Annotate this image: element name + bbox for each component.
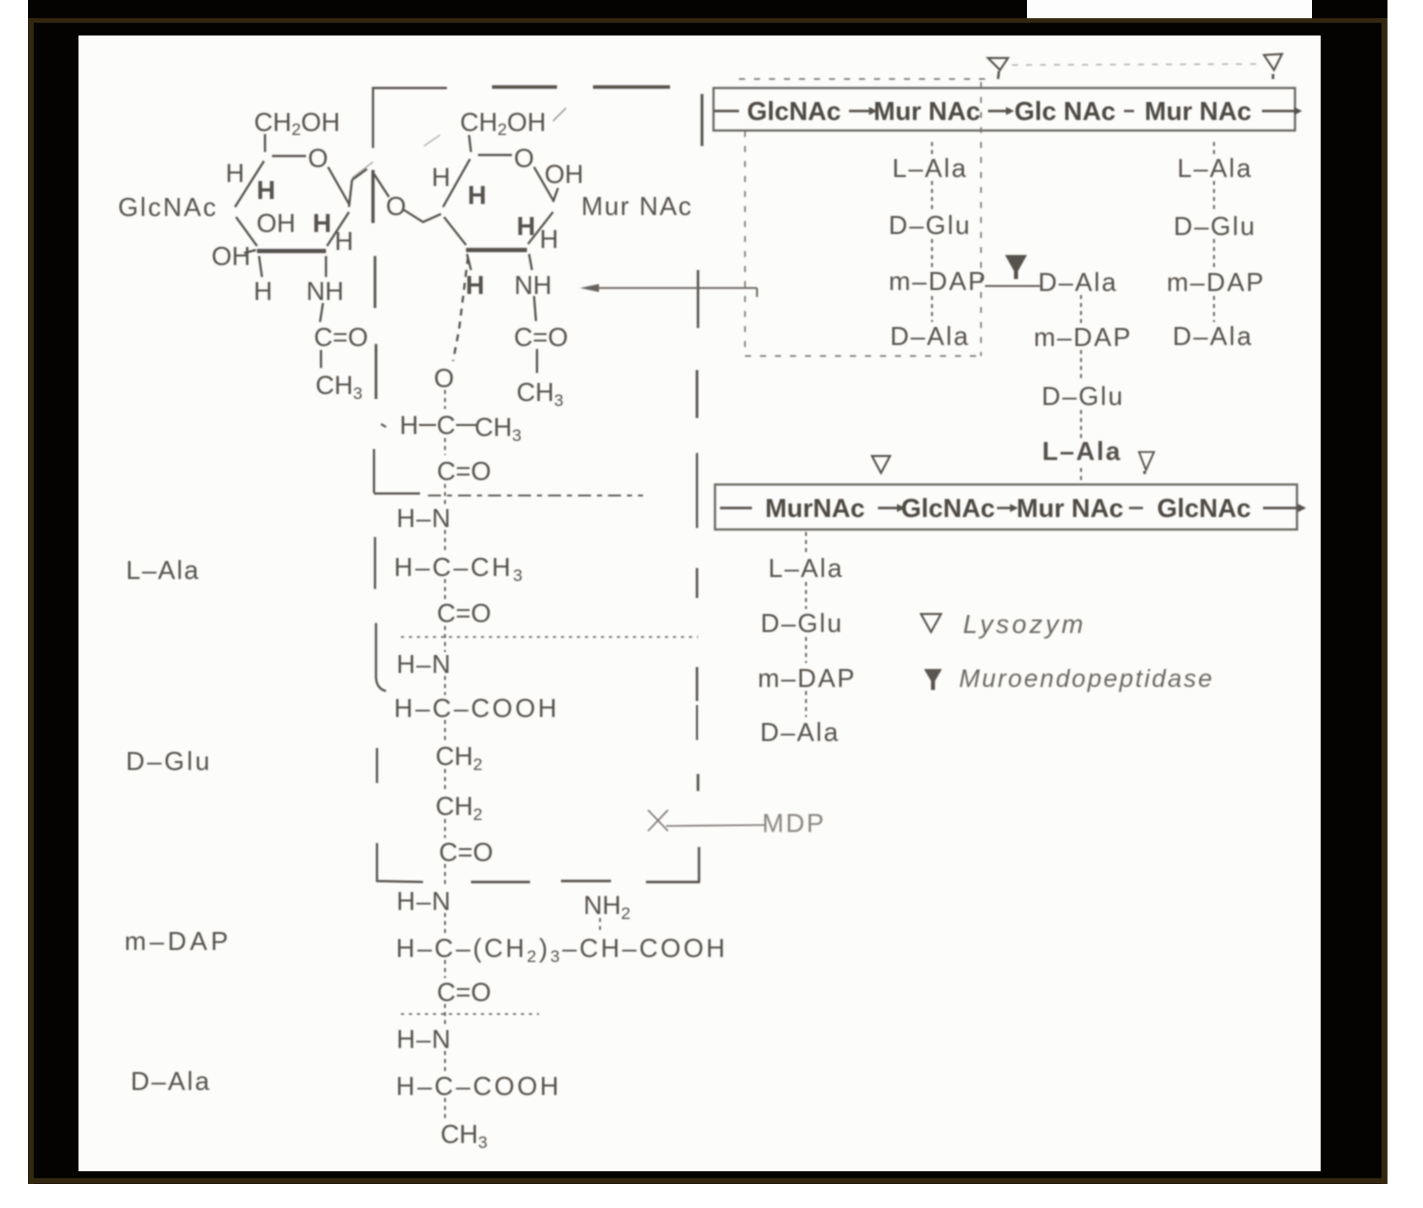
svg-text:H–N: H–N [396, 886, 451, 916]
left bracket segment [376, 748, 378, 783]
left bracket segment with hook [376, 623, 386, 691]
svg-text:C=O: C=O [439, 837, 493, 867]
svg-text:H–C–COOH: H–C–COOH [396, 1071, 561, 1101]
glycan box 1 [714, 88, 1296, 131]
peptide chain under box1 col2 [1167, 153, 1266, 351]
box 1 text [747, 96, 1251, 126]
svg-text:O: O [514, 143, 534, 173]
svg-text:D–Glu: D–Glu [1174, 211, 1257, 241]
crosslink chain [1034, 267, 1133, 466]
svg-text:C=O: C=O [437, 977, 491, 1007]
svg-text:m–DAP: m–DAP [1034, 322, 1133, 352]
svg-text:H–C–CH3: H–C–CH3 [394, 552, 525, 585]
svg-text:m–DAP: m–DAP [758, 663, 857, 693]
svg-text:D–Glu: D–Glu [1042, 381, 1125, 411]
svg-text:H: H [257, 175, 276, 205]
svg-text:H: H [335, 226, 354, 256]
svg-text:GlcNAc: GlcNAc [118, 192, 218, 222]
MurNAc ring bonds to substituents [467, 188, 558, 373]
legend open triangle [921, 614, 941, 632]
svg-text:D–Ala: D–Ala [1173, 321, 1254, 351]
svg-text:H: H [540, 224, 559, 254]
svg-text:NH: NH [306, 276, 344, 306]
svg-text:Mur NAc: Mur NAc [1017, 493, 1124, 523]
svg-text:GlcNAc: GlcNAc [1157, 493, 1251, 523]
svg-text:Mur NAc: Mur NAc [874, 96, 981, 126]
svg-text:OH: OH [257, 208, 296, 238]
GlcNAc ring bonds to substituents [244, 250, 326, 368]
svg-text:H–C–COOH: H–C–COOH [394, 693, 559, 723]
box 2 text [765, 493, 1251, 523]
svg-text:GlcNAc: GlcNAc [901, 493, 995, 523]
svg-text:H: H [226, 158, 245, 188]
left bracket bottom corner [377, 843, 423, 882]
open triangle above box2 [872, 456, 890, 473]
svg-text:O: O [308, 143, 328, 173]
svg-text:H–N: H–N [396, 503, 451, 533]
crosslink m-DAP to D-Ala [985, 285, 1040, 287]
svg-text:H–C–(CH2)3–CH–COOH: H–C–(CH2)3–CH–COOH [396, 933, 728, 966]
NH2 to CH link [599, 918, 601, 934]
svg-text:H: H [254, 276, 273, 306]
svg-text:OH: OH [212, 241, 251, 271]
cut line between lactyl and L-Ala y496 [428, 495, 643, 497]
svg-text:Muroendopeptidase: Muroendopeptidase [959, 665, 1214, 693]
lactyl O to C link [444, 390, 446, 409]
svg-text:Lysozym: Lysozym [963, 609, 1086, 639]
MDP marker x [648, 810, 766, 831]
peptide chain under box2 [758, 553, 857, 747]
lysozyme open triangle above box1 mid [988, 58, 1008, 70]
svg-text:C=O: C=O [514, 322, 568, 352]
svg-text:m–DAP: m–DAP [889, 266, 988, 296]
glycosidic bridge GlcNAc-O-MurNAc [349, 135, 441, 222]
svg-text:O: O [386, 191, 406, 221]
GlcNAc sugar ring [235, 134, 349, 251]
svg-text:H–N: H–N [396, 1024, 451, 1054]
left bracket segment near CH3 [375, 344, 378, 399]
glycan box 2 [715, 485, 1297, 530]
peptide chain under box1 col1 [889, 153, 988, 351]
svg-text:O: O [434, 363, 454, 393]
svg-text:m–DAP: m–DAP [1167, 267, 1266, 297]
svg-text:L–Ala: L–Ala [768, 553, 844, 583]
arrow from dashed unit to MurNAc NH [599, 288, 757, 297]
svg-text:C: C [437, 410, 456, 440]
right dashed vertical of repeat unit x697 [701, 94, 704, 146]
svg-text:NH: NH [514, 270, 552, 300]
small open triangle right of L-Ala [1139, 452, 1154, 470]
svg-text:MDP: MDP [762, 808, 826, 838]
svg-text:D–Ala: D–Ala [1038, 267, 1118, 297]
svg-text:L–Ala: L–Ala [126, 555, 200, 585]
svg-text:H: H [432, 162, 451, 192]
svg-text:Glc NAc: Glc NAc [1014, 96, 1115, 126]
brown frame line left [28, 18, 34, 1184]
cut line between m-DAP and D-Ala y1014 [401, 1013, 539, 1015]
svg-text:D–Ala: D–Ala [760, 717, 840, 747]
svg-text:H: H [313, 208, 332, 238]
MurNAc sugar ring [443, 108, 566, 250]
svg-text:C=O: C=O [437, 598, 491, 628]
svg-text:H: H [466, 270, 485, 300]
legend filled triangle [924, 669, 942, 690]
svg-text:L–Ala: L–Ala [1177, 153, 1253, 183]
svg-text:H: H [468, 180, 487, 210]
cut line between L-Ala and D-Glu y637 [401, 636, 698, 638]
left bracket corner into L-Ala cut [373, 449, 375, 493]
svg-text:H: H [400, 410, 419, 440]
svg-text:D–Glu: D–Glu [889, 210, 972, 240]
box 1 connector arrows [714, 108, 1301, 115]
svg-text:H–N: H–N [396, 649, 451, 679]
lysozyme open triangle above box1 right [1264, 54, 1282, 70]
svg-text:Mur NAc: Mur NAc [581, 191, 693, 221]
top dashed continuation [492, 85, 670, 88]
right end tick of bottom cut [698, 847, 700, 882]
svg-text:D–Glu: D–Glu [761, 608, 844, 638]
svg-text:H: H [517, 211, 536, 241]
cut line bottom of repeat unit y882 [471, 881, 700, 882]
svg-text:D–Glu: D–Glu [126, 746, 212, 776]
white notch top right [1027, 0, 1312, 18]
repeat-unit bracket: top corner [373, 88, 447, 148]
brown frame line top [28, 18, 1387, 23]
left bracket segment [374, 537, 376, 589]
svg-text:OH: OH [545, 159, 584, 189]
left bracket segment near bridge [371, 170, 374, 223]
left bracket segment near NH [374, 256, 377, 308]
svg-text:D–Ala: D–Ala [890, 321, 970, 351]
svg-text:GlcNAc: GlcNAc [747, 96, 841, 126]
lactyl ether dashed bond to O [453, 257, 468, 361]
H-C and C-CH3 bonds row 425 [419, 424, 436, 426]
svg-text:MurNAc: MurNAc [765, 493, 865, 523]
svg-text:L–Ala: L–Ala [1042, 436, 1122, 466]
small tick left of row [381, 424, 386, 427]
svg-text:L–Ala: L–Ala [892, 153, 968, 183]
svg-text:m–DAP: m–DAP [124, 926, 231, 956]
muroendopeptidase filled triangle [1005, 255, 1027, 279]
dashed sub-unit rectangle [739, 79, 985, 356]
svg-text:C=O: C=O [314, 322, 368, 352]
brown frame line bottom [28, 1178, 1387, 1183]
svg-text:C=O: C=O [437, 456, 491, 486]
brown frame line right [1382, 18, 1388, 1184]
svg-text:Mur NAc: Mur NAc [1145, 96, 1252, 126]
box 2 connector arrows [720, 505, 1305, 512]
svg-text:D–Ala: D–Ala [131, 1066, 212, 1096]
